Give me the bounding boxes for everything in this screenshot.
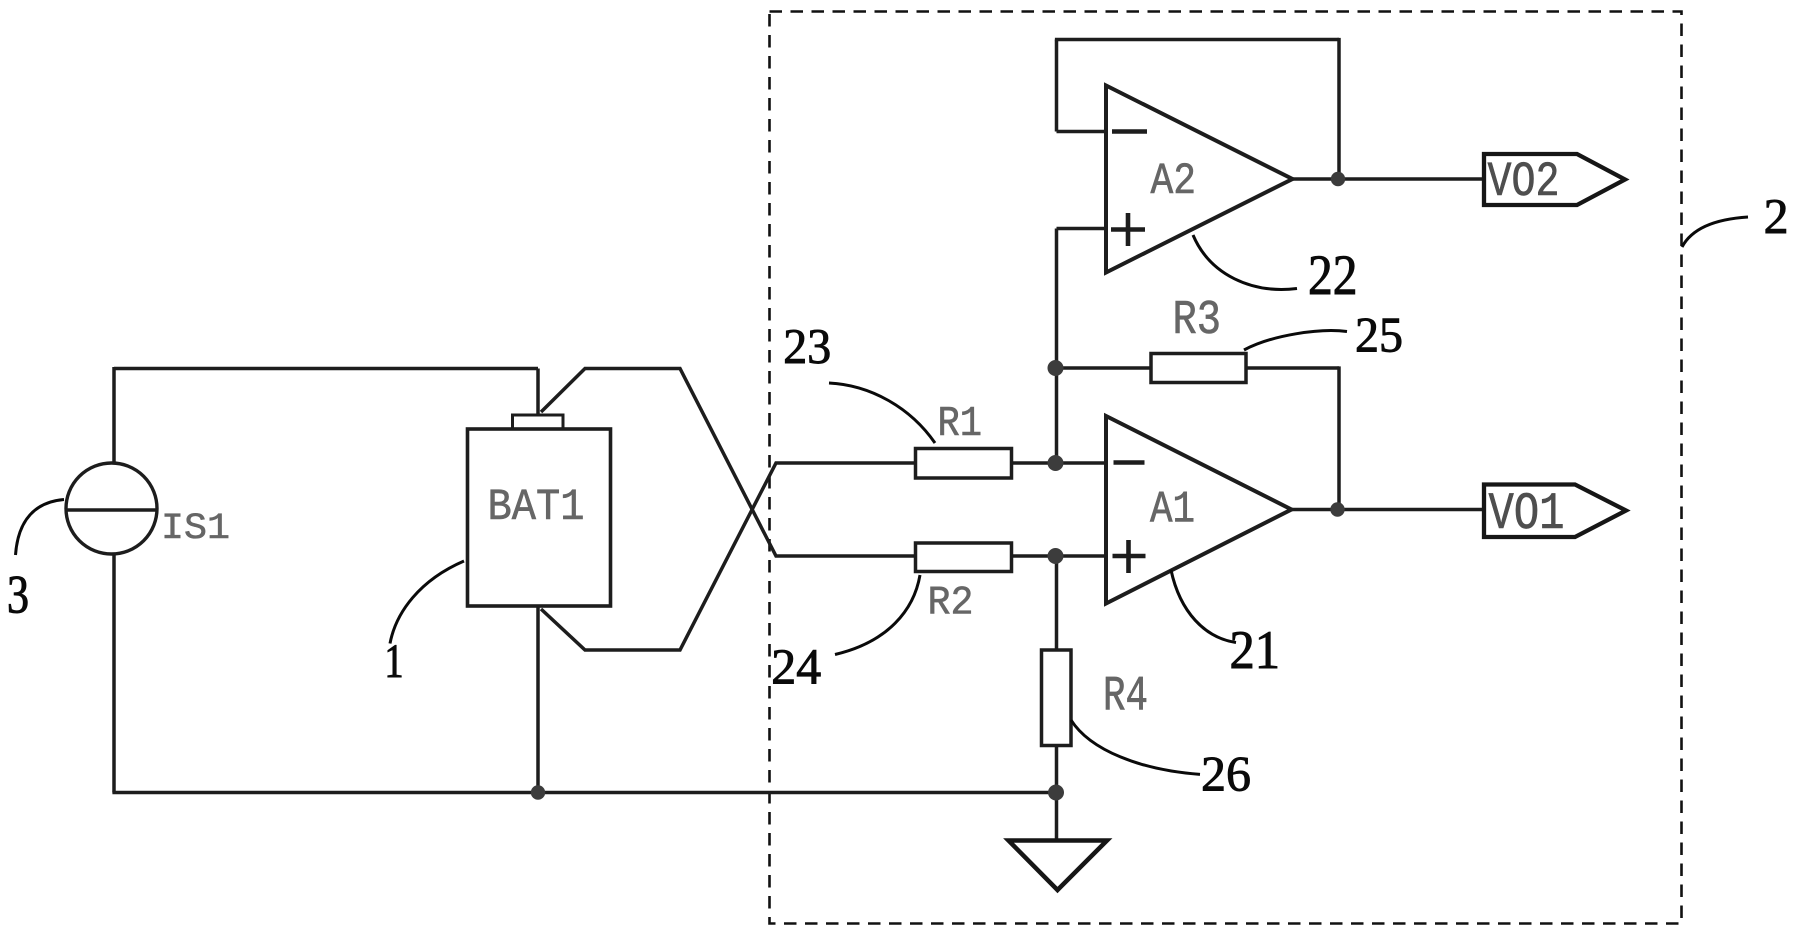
current source IS1 <box>66 463 228 554</box>
dashed box (block 2) <box>770 12 1682 924</box>
wire ground lead <box>1055 793 1059 842</box>
output flag VO2 <box>1484 154 1625 205</box>
wire twisted pair from battery plus to R2 <box>541 369 916 557</box>
node A1 output junction <box>1330 502 1344 516</box>
label 24 with leader <box>773 575 920 684</box>
wire A2 feedback left vertical <box>1055 40 1059 132</box>
wire A1 output to VO1 <box>1292 508 1485 512</box>
node ground junction <box>1048 785 1064 801</box>
wire A2 non-inverting input <box>1057 227 1107 231</box>
wire A2 output to VO2 <box>1293 177 1485 181</box>
node A1 inverting junction <box>1048 455 1064 471</box>
label 1 with leader <box>388 561 464 677</box>
battery BAT1 <box>468 415 611 606</box>
node A2 output junction <box>1331 172 1345 186</box>
resistor R2 <box>916 543 1012 614</box>
node battery bottom junction <box>531 785 545 799</box>
wire twisted pair from battery minus to R1 <box>541 463 916 650</box>
wire node vertical A2 plus to R1 node <box>1055 229 1059 464</box>
resistor R3 <box>1151 301 1246 383</box>
wire battery top lead <box>536 369 540 417</box>
node A1 non-inverting junction <box>1048 548 1064 564</box>
wire A2 feedback right vertical <box>1337 38 1341 179</box>
ground <box>1009 841 1108 891</box>
wire R3 right vertical to A1 output <box>1337 366 1341 509</box>
wire bottom horizontal <box>112 791 1056 795</box>
resistor R4 <box>1042 650 1147 746</box>
wire R3 right <box>1246 366 1339 370</box>
resistor R1 <box>916 407 1012 478</box>
label 2 with leader <box>1682 200 1786 247</box>
output flag VO1 <box>1484 485 1626 538</box>
label 3 with leader <box>9 500 64 614</box>
label 25 with leader <box>1244 318 1401 352</box>
wire battery bottom lead <box>536 605 540 793</box>
wire A2 feedback top horizontal <box>1055 38 1339 42</box>
wire R1 to A1 inverting input <box>1012 461 1107 465</box>
wire R2 node down to R4 <box>1055 556 1059 651</box>
op-amp A2 <box>1106 86 1293 273</box>
label 22 with leader <box>1193 235 1355 294</box>
wire top from IS1 to BAT1 <box>114 367 538 371</box>
wire R2 to A1 non-inverting input <box>1012 554 1107 558</box>
wire left vertical lower <box>112 553 116 793</box>
wire A2 inverting input <box>1057 130 1107 134</box>
node R3 left junction <box>1048 360 1064 376</box>
label 23 with leader <box>785 330 935 443</box>
wire left vertical upper <box>112 367 116 464</box>
op-amp A1 <box>1106 416 1292 604</box>
label 26 with leader <box>1071 720 1250 791</box>
label 21 with leader <box>1171 570 1277 668</box>
wire R3 left <box>1057 366 1152 370</box>
wire R4 bottom to ground node <box>1055 744 1059 793</box>
